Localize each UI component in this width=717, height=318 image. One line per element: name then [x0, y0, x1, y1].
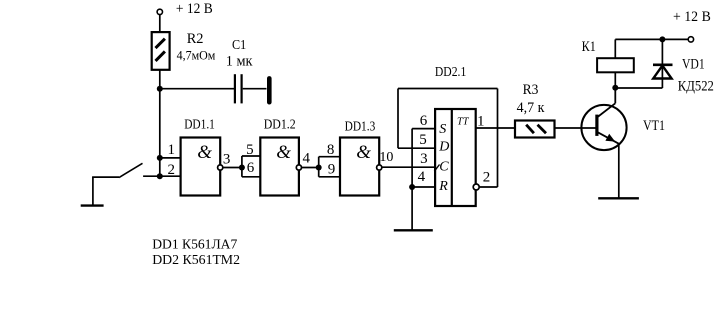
wire relay to +12 — [614, 39, 616, 58]
inversion bubble DD1.1 output — [218, 165, 223, 170]
diode VD1 — [653, 39, 673, 88]
ground DD2.1 — [394, 229, 433, 231]
svg-text:6: 6 — [420, 113, 428, 129]
dynamic input slash at C — [434, 165, 439, 172]
svg-text:3: 3 — [223, 151, 231, 167]
svg-text:2: 2 — [483, 169, 491, 185]
svg-text:+ 12 В: + 12 В — [176, 1, 213, 17]
power terminal +12V right — [673, 9, 711, 42]
wire DD1.1 out to DD1.2 — [223, 167, 242, 169]
svg-text:К1: К1 — [582, 39, 596, 55]
svg-text:VT1: VT1 — [643, 118, 665, 134]
svg-text:DD1.1: DD1.1 — [184, 118, 215, 133]
relay K1 — [597, 58, 634, 72]
wire feedback right vertical — [497, 89, 499, 188]
svg-text:DD1 К561ЛА7: DD1 К561ЛА7 — [152, 238, 237, 253]
svg-text:5: 5 — [246, 142, 254, 158]
wire collector to diode — [615, 87, 662, 89]
svg-text:5: 5 — [419, 132, 427, 148]
wire pin1 to R3 — [476, 127, 515, 129]
svg-text:8: 8 — [327, 142, 335, 158]
svg-text:DD2.1: DD2.1 — [435, 65, 466, 80]
wire terminal to R2 — [159, 15, 161, 32]
svg-text:R2: R2 — [187, 31, 204, 47]
gate DD1.1 — [181, 138, 221, 196]
wire S-R tie vertical — [411, 129, 413, 187]
svg-text:D: D — [438, 140, 449, 155]
gate DD1.2 — [260, 138, 299, 196]
svg-text:&: & — [356, 142, 371, 163]
label C1 value — [226, 38, 253, 69]
node DD1.2 input — [239, 165, 245, 171]
svg-text:4,7 к: 4,7 к — [517, 100, 545, 116]
label R3 value — [517, 82, 545, 116]
wire pin1 stub — [160, 157, 181, 159]
wire input bracket DD1.2 — [242, 156, 260, 177]
label VD1 value — [678, 56, 714, 94]
svg-text:&: & — [276, 142, 291, 163]
wire pin4 R stub — [412, 186, 435, 188]
svg-text:+ 12 В: + 12 В — [673, 9, 711, 25]
svg-text:6: 6 — [247, 160, 255, 176]
ground emitter — [598, 197, 639, 199]
svg-text:9: 9 — [328, 161, 336, 177]
power terminal +12V left — [157, 1, 213, 17]
gate DD1.3 — [340, 138, 379, 196]
svg-text:R: R — [438, 179, 448, 194]
svg-text:КД522: КД522 — [678, 79, 714, 95]
wire collector to relay — [614, 72, 616, 87]
wire R3 to base — [555, 127, 597, 129]
resistor R2 — [152, 32, 170, 70]
svg-text:3: 3 — [420, 151, 428, 167]
capacitor C1 — [235, 74, 269, 103]
node DD1.3 input — [316, 165, 322, 171]
node diode top — [659, 36, 665, 42]
wire pin2 stub — [480, 186, 498, 188]
inversion bubble pin2 — [473, 184, 479, 190]
label R2 value — [177, 31, 216, 62]
wire feedback left vertical — [397, 89, 399, 149]
svg-text:&: & — [197, 142, 212, 163]
node pin2 DD1.1 — [157, 173, 163, 179]
switch contact — [92, 163, 160, 205]
svg-text:4: 4 — [418, 169, 426, 185]
wire feedback top — [398, 88, 498, 90]
wire input bracket DD1.3 — [319, 157, 340, 177]
svg-text:4,7мОм: 4,7мОм — [177, 48, 216, 62]
svg-text:1 мк: 1 мк — [226, 54, 253, 70]
svg-text:1: 1 — [477, 113, 485, 129]
wire pin6 S stub — [412, 128, 435, 130]
svg-text:10: 10 — [379, 150, 393, 165]
svg-text:C1: C1 — [232, 38, 246, 53]
svg-text:DD1.3: DD1.3 — [345, 119, 376, 134]
node pin1 DD1.1 — [157, 155, 163, 161]
svg-text:DD2 К561ТМ2: DD2 К561ТМ2 — [152, 253, 240, 268]
node R pin ground — [409, 184, 415, 190]
inversion bubble DD1.3 output — [377, 165, 382, 170]
wire to C1 — [160, 88, 235, 90]
svg-text:4: 4 — [303, 151, 311, 167]
inversion bubble DD1.2 output — [296, 165, 301, 170]
svg-text:C: C — [439, 160, 449, 175]
wire R2 bottom rail — [159, 70, 161, 176]
svg-text:1: 1 — [167, 142, 175, 158]
wire DD1.2 out to DD1.3 — [302, 167, 319, 169]
transistor VT1 — [581, 88, 626, 150]
svg-text:VD1: VD1 — [682, 56, 705, 72]
svg-text:R3: R3 — [523, 82, 539, 98]
node collector — [612, 85, 618, 91]
svg-text:S: S — [439, 122, 446, 137]
flip-flop DD2.1 — [435, 109, 476, 206]
svg-text:TT: TT — [457, 116, 470, 127]
wire emitter to ground — [618, 144, 620, 198]
wire top right rail — [615, 38, 688, 40]
svg-text:2: 2 — [167, 162, 175, 178]
resistor R3 — [515, 121, 555, 138]
wire DD1.3 out to DD2.1 pin3 — [382, 166, 435, 168]
wire pin5 D stub — [398, 147, 435, 149]
node junction C1 — [157, 86, 163, 92]
wire pin2 stub — [160, 175, 181, 177]
wire to ground DD2.1 — [411, 187, 413, 230]
ground switch — [81, 204, 104, 206]
svg-text:DD1.2: DD1.2 — [264, 117, 296, 132]
